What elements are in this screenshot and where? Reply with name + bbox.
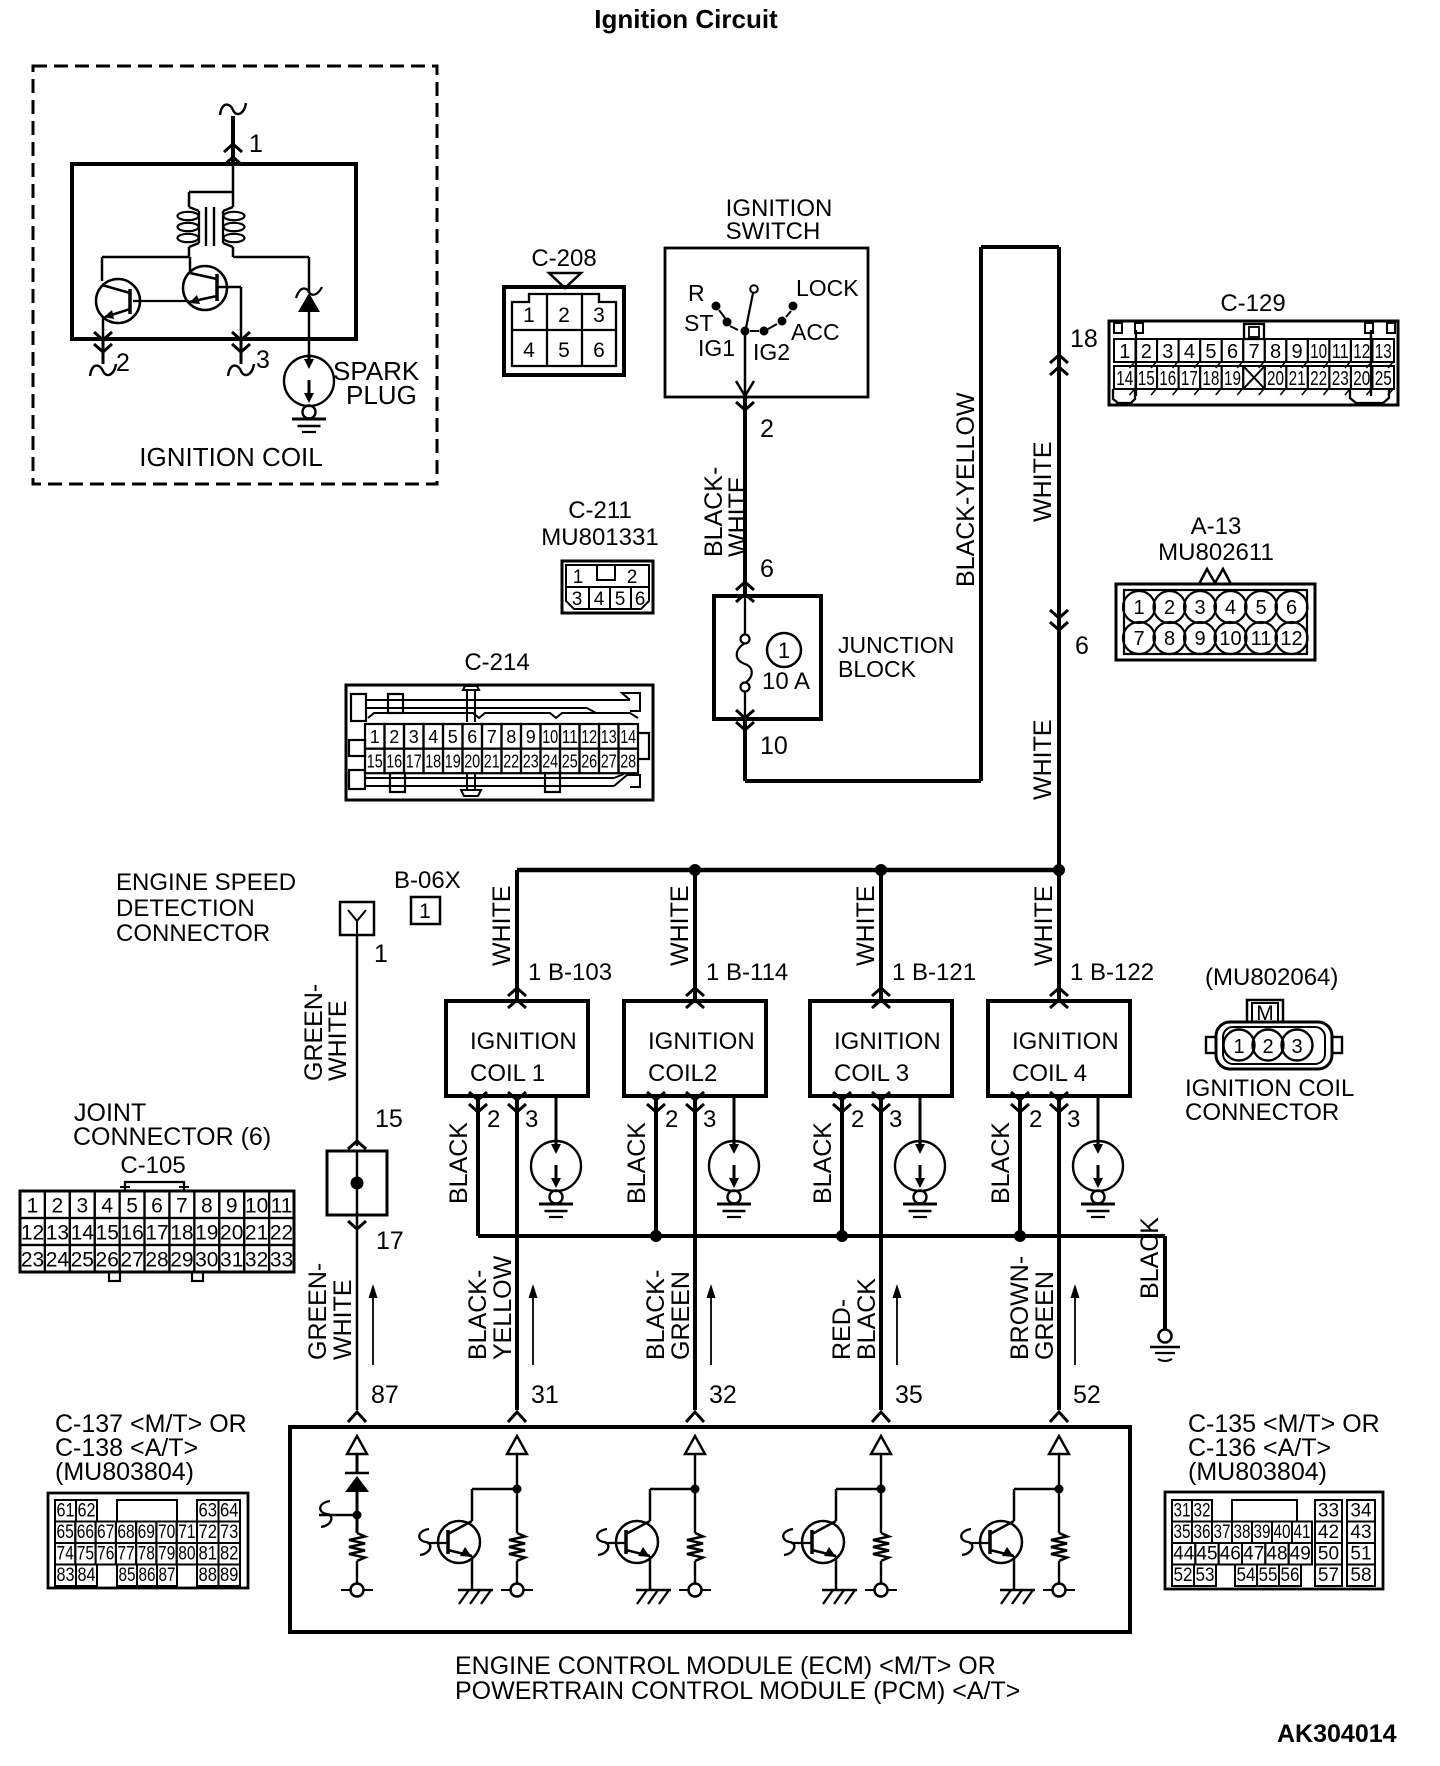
svg-text:13: 13 [46, 1222, 69, 1245]
svg-text:52: 52 [1174, 1565, 1193, 1586]
svg-text:74: 74 [56, 1544, 74, 1565]
svg-text:3: 3 [256, 346, 270, 374]
svg-text:10: 10 [245, 1195, 268, 1218]
svg-text:67: 67 [97, 1522, 114, 1543]
svg-text:2: 2 [665, 1106, 678, 1133]
svg-text:61: 61 [57, 1501, 75, 1522]
svg-text:BLACK: BLACK [1136, 1217, 1164, 1299]
svg-text:17: 17 [1181, 368, 1198, 390]
svg-text:7: 7 [1248, 341, 1259, 363]
svg-text:WHITE: WHITE [324, 1000, 352, 1081]
svg-text:2: 2 [1141, 341, 1152, 363]
svg-text:70: 70 [158, 1522, 175, 1543]
svg-text:82: 82 [220, 1544, 239, 1565]
svg-text:14: 14 [71, 1222, 95, 1245]
svg-text:R: R [688, 280, 705, 306]
svg-text:C-214: C-214 [464, 649, 529, 676]
svg-text:30: 30 [195, 1249, 218, 1272]
svg-text:15: 15 [375, 1105, 403, 1133]
svg-text:A-13: A-13 [1191, 513, 1242, 540]
svg-text:63: 63 [199, 1501, 218, 1522]
svg-text:35: 35 [895, 1381, 923, 1409]
svg-text:AK304014: AK304014 [1277, 1720, 1397, 1748]
svg-text:42: 42 [1318, 1522, 1339, 1543]
svg-text:IGNITION: IGNITION [648, 1028, 755, 1055]
svg-text:20: 20 [220, 1222, 243, 1245]
svg-text:8: 8 [1270, 341, 1281, 363]
svg-text:32: 32 [709, 1381, 737, 1409]
svg-text:20: 20 [464, 752, 480, 772]
svg-text:BLACK: BLACK [809, 1122, 837, 1204]
svg-text:7: 7 [1133, 628, 1144, 650]
svg-text:34: 34 [1350, 1501, 1372, 1522]
svg-text:4: 4 [594, 589, 605, 610]
svg-text:M: M [1256, 1002, 1274, 1025]
svg-text:6: 6 [593, 339, 605, 362]
svg-text:4: 4 [1225, 597, 1236, 619]
svg-text:53: 53 [1196, 1565, 1215, 1586]
svg-text:CONNECTOR: CONNECTOR [116, 920, 270, 947]
svg-text:PLUG: PLUG [346, 380, 417, 410]
svg-text:16: 16 [120, 1222, 143, 1245]
svg-text:26: 26 [581, 752, 597, 772]
svg-text:2: 2 [1029, 1106, 1042, 1133]
svg-text:50: 50 [1318, 1544, 1339, 1565]
svg-text:19: 19 [195, 1222, 218, 1245]
svg-text:55: 55 [1259, 1565, 1278, 1586]
svg-text:IGNITION COIL: IGNITION COIL [1185, 1075, 1354, 1102]
svg-text:3: 3 [593, 304, 605, 327]
svg-text:6: 6 [467, 727, 477, 747]
svg-text:75: 75 [77, 1544, 94, 1565]
svg-text:22: 22 [503, 752, 519, 772]
svg-text:43: 43 [1350, 1522, 1371, 1543]
svg-text:(MU803804): (MU803804) [1188, 1458, 1327, 1486]
svg-text:2: 2 [1262, 1036, 1273, 1058]
svg-text:1: 1 [27, 1195, 39, 1218]
svg-text:12: 12 [1280, 628, 1302, 650]
svg-text:72: 72 [199, 1522, 218, 1543]
svg-text:MU801331: MU801331 [541, 524, 658, 551]
svg-text:1: 1 [1133, 597, 1144, 619]
svg-text:32: 32 [1194, 1501, 1211, 1522]
svg-text:11: 11 [271, 1195, 293, 1218]
svg-text:3: 3 [525, 1106, 538, 1133]
svg-text:LOCK: LOCK [796, 275, 859, 301]
svg-text:WHITE: WHITE [329, 1279, 357, 1360]
svg-text:2: 2 [760, 415, 774, 443]
svg-text:DETECTION: DETECTION [116, 895, 255, 922]
svg-text:68: 68 [117, 1522, 134, 1543]
svg-text:9: 9 [226, 1195, 238, 1218]
svg-text:1: 1 [249, 130, 263, 158]
svg-text:77: 77 [117, 1544, 134, 1565]
svg-text:80: 80 [178, 1544, 195, 1565]
svg-text:C-129: C-129 [1220, 290, 1285, 317]
svg-text:89: 89 [220, 1565, 239, 1586]
svg-text:22: 22 [1310, 368, 1327, 390]
svg-text:3: 3 [572, 589, 583, 610]
svg-text:COIL2: COIL2 [648, 1060, 717, 1087]
svg-text:18: 18 [170, 1222, 193, 1245]
svg-text:(MU803804): (MU803804) [55, 1458, 194, 1486]
svg-text:23: 23 [523, 752, 539, 772]
svg-text:25: 25 [71, 1249, 94, 1272]
svg-text:16: 16 [1159, 368, 1176, 390]
svg-text:1: 1 [523, 304, 535, 327]
svg-text:8: 8 [201, 1195, 213, 1218]
svg-text:76: 76 [97, 1544, 114, 1565]
svg-text:2: 2 [558, 304, 570, 327]
svg-text:10: 10 [1219, 628, 1241, 650]
svg-text:BLACK-: BLACK- [642, 1270, 670, 1360]
svg-text:IGNITION: IGNITION [834, 1028, 941, 1055]
svg-text:11: 11 [1251, 628, 1272, 650]
svg-text:2: 2 [52, 1195, 64, 1218]
svg-text:6: 6 [760, 555, 774, 583]
svg-text:31: 31 [531, 1381, 559, 1409]
svg-text:28: 28 [145, 1249, 168, 1272]
svg-text:25: 25 [1375, 368, 1392, 390]
svg-text:5: 5 [448, 727, 458, 747]
svg-text:WHITE: WHITE [666, 885, 694, 966]
svg-text:41: 41 [1294, 1522, 1311, 1543]
svg-text:3: 3 [409, 727, 419, 747]
svg-text:31: 31 [1174, 1501, 1191, 1522]
svg-text:ST: ST [684, 310, 713, 336]
svg-text:40: 40 [1274, 1522, 1291, 1543]
svg-text:12: 12 [1353, 341, 1370, 363]
svg-text:57: 57 [1318, 1565, 1339, 1586]
svg-text:JUNCTION: JUNCTION [838, 632, 954, 658]
svg-text:3: 3 [1291, 1036, 1302, 1058]
svg-text:1 B-121: 1 B-121 [892, 959, 976, 986]
svg-text:WHITE: WHITE [1030, 885, 1058, 966]
svg-text:33: 33 [1318, 1501, 1339, 1522]
svg-text:10: 10 [760, 732, 788, 760]
svg-text:32: 32 [245, 1249, 268, 1272]
svg-text:48: 48 [1266, 1544, 1287, 1565]
svg-text:84: 84 [78, 1565, 96, 1586]
svg-text:9: 9 [526, 727, 536, 747]
svg-text:15: 15 [96, 1222, 119, 1245]
svg-text:C-208: C-208 [531, 245, 596, 272]
svg-text:B-06X: B-06X [394, 867, 461, 894]
svg-text:38: 38 [1234, 1522, 1251, 1543]
svg-text:65: 65 [56, 1522, 73, 1543]
svg-text:1: 1 [1233, 1036, 1244, 1058]
svg-text:7: 7 [176, 1195, 188, 1218]
svg-text:12: 12 [581, 727, 597, 747]
svg-text:17: 17 [145, 1222, 168, 1245]
svg-text:87: 87 [159, 1565, 176, 1586]
svg-text:58: 58 [1350, 1565, 1371, 1586]
svg-text:25: 25 [562, 752, 578, 772]
svg-text:1: 1 [370, 727, 380, 747]
svg-text:4: 4 [523, 339, 535, 362]
svg-text:64: 64 [220, 1501, 239, 1522]
svg-text:GREEN-: GREEN- [304, 1263, 332, 1360]
svg-text:46: 46 [1220, 1544, 1241, 1565]
svg-text:4: 4 [1184, 341, 1195, 363]
svg-text:73: 73 [220, 1522, 239, 1543]
svg-text:1: 1 [573, 567, 584, 588]
svg-text:10: 10 [542, 727, 558, 747]
svg-text:83: 83 [57, 1565, 75, 1586]
svg-text:WHITE: WHITE [1029, 441, 1057, 522]
svg-text:20: 20 [1353, 368, 1370, 390]
svg-text:71: 71 [178, 1522, 195, 1543]
svg-text:18: 18 [425, 752, 441, 772]
svg-text:17: 17 [376, 1227, 404, 1255]
svg-text:14: 14 [620, 727, 636, 747]
svg-text:18: 18 [1202, 368, 1219, 390]
svg-text:CONNECTOR (6): CONNECTOR (6) [73, 1123, 271, 1151]
svg-text:20: 20 [1267, 368, 1284, 390]
svg-text:2: 2 [389, 727, 399, 747]
svg-text:ACC: ACC [791, 319, 840, 345]
svg-text:GREEN: GREEN [667, 1271, 695, 1360]
svg-text:52: 52 [1073, 1381, 1101, 1409]
svg-text:19: 19 [445, 752, 461, 772]
svg-text:3: 3 [76, 1195, 88, 1218]
svg-text:IGNITION: IGNITION [470, 1028, 577, 1055]
svg-text:6: 6 [635, 589, 646, 610]
svg-text:YELLOW: YELLOW [489, 1255, 517, 1360]
svg-text:5: 5 [1255, 597, 1266, 619]
svg-text:IGNITION: IGNITION [1012, 1028, 1119, 1055]
svg-text:51: 51 [1350, 1544, 1371, 1565]
svg-text:21: 21 [1289, 368, 1306, 390]
svg-text:12: 12 [21, 1222, 44, 1245]
svg-text:WHITE: WHITE [724, 476, 752, 557]
svg-text:WHITE: WHITE [488, 885, 516, 966]
svg-text:13: 13 [1375, 341, 1392, 363]
svg-text:86: 86 [139, 1565, 156, 1586]
svg-text:COIL 1: COIL 1 [470, 1060, 545, 1087]
svg-text:47: 47 [1243, 1544, 1264, 1565]
svg-text:45: 45 [1196, 1544, 1217, 1565]
svg-text:6: 6 [1286, 597, 1297, 619]
svg-text:62: 62 [78, 1501, 96, 1522]
svg-text:49: 49 [1290, 1544, 1311, 1565]
svg-text:36: 36 [1194, 1522, 1211, 1543]
svg-text:WHITE: WHITE [852, 885, 880, 966]
svg-text:BLACK: BLACK [987, 1122, 1015, 1204]
svg-text:BLACK: BLACK [853, 1278, 881, 1360]
svg-text:22: 22 [270, 1222, 293, 1245]
svg-text:11: 11 [1332, 341, 1349, 363]
svg-text:BLACK-: BLACK- [464, 1270, 492, 1360]
svg-text:WHITE: WHITE [1029, 719, 1057, 800]
svg-text:44: 44 [1173, 1544, 1195, 1565]
svg-text:BROWN-: BROWN- [1006, 1256, 1034, 1360]
svg-text:POWERTRAIN CONTROL MODULE (PCM: POWERTRAIN CONTROL MODULE (PCM) <A/T> [455, 1677, 1020, 1705]
svg-text:3: 3 [1067, 1106, 1080, 1133]
svg-text:IG2: IG2 [753, 339, 790, 365]
svg-text:16: 16 [386, 752, 402, 772]
svg-text:2: 2 [1164, 597, 1175, 619]
svg-text:RED-: RED- [828, 1299, 856, 1360]
svg-text:2: 2 [851, 1106, 864, 1133]
svg-text:33: 33 [270, 1249, 293, 1272]
svg-text:6: 6 [1227, 341, 1238, 363]
svg-text:27: 27 [120, 1249, 143, 1272]
svg-text:BLACK: BLACK [623, 1122, 651, 1204]
svg-text:3: 3 [1162, 341, 1173, 363]
svg-text:37: 37 [1214, 1522, 1231, 1543]
svg-text:COIL 4: COIL 4 [1012, 1060, 1087, 1087]
svg-text:9: 9 [1292, 341, 1303, 363]
svg-text:5: 5 [1205, 341, 1216, 363]
svg-text:6: 6 [1075, 632, 1089, 660]
svg-text:24: 24 [46, 1249, 70, 1272]
svg-text:78: 78 [138, 1544, 155, 1565]
svg-text:19: 19 [1224, 368, 1241, 390]
svg-text:BLACK: BLACK [445, 1122, 473, 1204]
svg-text:11: 11 [562, 727, 578, 747]
svg-text:1: 1 [419, 900, 431, 923]
svg-text:8: 8 [1164, 628, 1175, 650]
svg-text:8: 8 [506, 727, 516, 747]
svg-text:15: 15 [367, 752, 383, 772]
svg-text:C-211: C-211 [568, 497, 632, 524]
svg-text:2: 2 [487, 1106, 500, 1133]
svg-text:29: 29 [170, 1249, 193, 1272]
svg-text:1 B-103: 1 B-103 [528, 959, 612, 986]
svg-text:9: 9 [1194, 628, 1205, 650]
svg-text:26: 26 [96, 1249, 119, 1272]
svg-text:35: 35 [1174, 1522, 1191, 1543]
svg-text:66: 66 [77, 1522, 94, 1543]
svg-text:13: 13 [601, 727, 617, 747]
svg-text:3: 3 [889, 1106, 902, 1133]
svg-text:10 A: 10 A [762, 668, 810, 695]
svg-text:IGNITION COIL: IGNITION COIL [139, 442, 322, 472]
svg-text:17: 17 [406, 752, 422, 772]
svg-text:23: 23 [1332, 368, 1349, 390]
svg-text:39: 39 [1254, 1522, 1271, 1543]
svg-text:3: 3 [703, 1106, 716, 1133]
svg-text:23: 23 [21, 1249, 44, 1272]
svg-text:BLOCK: BLOCK [838, 656, 917, 682]
svg-text:COIL 3: COIL 3 [834, 1060, 909, 1087]
svg-text:88: 88 [199, 1565, 218, 1586]
svg-text:ENGINE CONTROL MODULE (ECM) <M: ENGINE CONTROL MODULE (ECM) <M/T> OR [455, 1652, 996, 1680]
svg-text:MU802611: MU802611 [1158, 539, 1274, 566]
svg-text:3: 3 [1194, 597, 1205, 619]
svg-text:1 B-114: 1 B-114 [706, 959, 788, 986]
svg-text:15: 15 [1138, 368, 1155, 390]
svg-text:C-105: C-105 [120, 1152, 185, 1179]
svg-text:81: 81 [199, 1544, 218, 1565]
svg-text:1 B-122: 1 B-122 [1070, 959, 1154, 986]
svg-text:87: 87 [371, 1381, 399, 1409]
svg-text:ENGINE SPEED: ENGINE SPEED [116, 869, 296, 896]
svg-text:14: 14 [1116, 368, 1133, 390]
svg-text:1: 1 [778, 638, 790, 663]
svg-text:5: 5 [558, 339, 570, 362]
svg-text:IG1: IG1 [698, 335, 735, 361]
svg-text:56: 56 [1281, 1565, 1300, 1586]
svg-text:GREEN: GREEN [1031, 1271, 1059, 1360]
svg-text:BLACK-YELLOW: BLACK-YELLOW [952, 392, 980, 587]
svg-text:5: 5 [126, 1195, 138, 1218]
svg-text:21: 21 [484, 752, 500, 772]
svg-text:24: 24 [542, 752, 558, 772]
svg-text:Ignition Circuit: Ignition Circuit [594, 4, 778, 34]
svg-text:CONNECTOR: CONNECTOR [1185, 1099, 1339, 1126]
svg-text:85: 85 [119, 1565, 136, 1586]
svg-text:31: 31 [220, 1249, 243, 1272]
svg-text:69: 69 [138, 1522, 155, 1543]
svg-text:7: 7 [487, 727, 497, 747]
svg-text:21: 21 [245, 1222, 268, 1245]
svg-text:SWITCH: SWITCH [726, 218, 821, 245]
svg-text:10: 10 [1310, 341, 1327, 363]
svg-text:(MU802064): (MU802064) [1205, 964, 1338, 991]
svg-text:18: 18 [1070, 325, 1098, 353]
svg-text:6: 6 [151, 1195, 163, 1218]
svg-text:54: 54 [1237, 1565, 1256, 1586]
svg-text:27: 27 [601, 752, 617, 772]
svg-text:1: 1 [1119, 341, 1130, 363]
svg-text:4: 4 [101, 1195, 113, 1218]
svg-text:4: 4 [428, 727, 438, 747]
svg-text:79: 79 [158, 1544, 175, 1565]
svg-text:2: 2 [627, 567, 638, 588]
svg-text:5: 5 [615, 589, 626, 610]
svg-text:28: 28 [620, 752, 636, 772]
svg-text:1: 1 [374, 940, 388, 968]
svg-text:2: 2 [116, 349, 130, 377]
